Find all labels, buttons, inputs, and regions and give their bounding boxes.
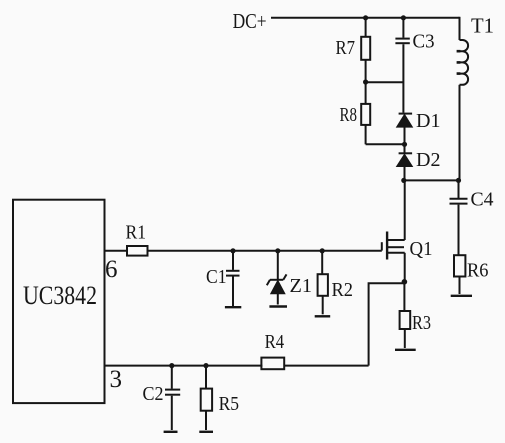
node R5 [203,363,208,368]
node C2 [169,363,174,368]
node top-C3 [401,15,406,20]
svg-text:D2: D2 [416,149,441,171]
pin 6 [105,251,128,283]
node drain-C4wire [401,178,406,183]
transistor Q1 [382,180,433,281]
ground R2 [315,315,331,317]
resistor R1 [126,222,148,256]
svg-text:R7: R7 [336,37,356,59]
ground R3 [395,349,416,351]
svg-text:R5: R5 [219,393,240,415]
pin 3 [105,366,263,393]
svg-text:D1: D1 [416,110,441,132]
svg-text:6: 6 [105,256,118,283]
wire R8bottom-to-D1D2 [366,143,405,145]
resistor R2 [318,251,353,314]
svg-text:R4: R4 [265,331,285,353]
wire R7bottom-to-C3bottom [366,81,404,83]
transformer T1 [457,14,494,181]
svg-text:C3: C3 [413,31,435,53]
svg-text:DC+: DC+ [233,9,267,33]
svg-text:C4: C4 [471,189,494,211]
svg-text:R1: R1 [126,222,147,244]
node Q1 source [402,279,408,285]
capacitor C1 [206,251,240,306]
ground C2 [164,431,178,433]
zener Z1 [267,251,312,305]
resistor R3 [400,282,431,348]
diode D2 [397,144,441,180]
svg-text:Q1: Q1 [410,238,433,260]
ground C1 [225,306,241,308]
node top-R7 [363,15,368,20]
node C1 [230,248,235,253]
ground R6 [451,295,472,297]
node coil-C4 [456,178,461,183]
node Z1 [275,248,280,253]
node R7-bottom [363,79,368,84]
wire pin6 row [148,250,382,252]
node R2 [320,248,325,253]
resistor R8 [340,82,371,144]
resistor R7 [336,18,371,82]
node D1-D2 [402,142,407,147]
wire to C4 branch [404,179,459,181]
capacitor C4 [450,180,494,255]
svg-text:UC3842: UC3842 [23,281,97,310]
wire top rail [271,17,460,19]
wire source to R4 row [369,283,405,365]
svg-text:Z1: Z1 [290,275,313,297]
IC U1 UC3842 [13,200,105,403]
ground Z1 [269,305,287,307]
svg-text:R2: R2 [332,279,354,301]
resistor R5 [201,366,239,430]
svg-text:3: 3 [110,366,123,393]
resistor R4 [261,331,368,369]
svg-text:R3: R3 [412,312,431,334]
diode D1 [397,110,441,144]
svg-text:C2: C2 [143,383,164,405]
ground R5 [199,431,213,433]
capacitor C2 [143,366,181,430]
svg-text:R6: R6 [467,260,489,282]
svg-text:T1: T1 [471,14,494,38]
svg-text:C1: C1 [206,266,227,288]
capacitor C3 [395,18,434,113]
resistor R6 [454,255,489,294]
svg-text:R8: R8 [340,104,358,126]
